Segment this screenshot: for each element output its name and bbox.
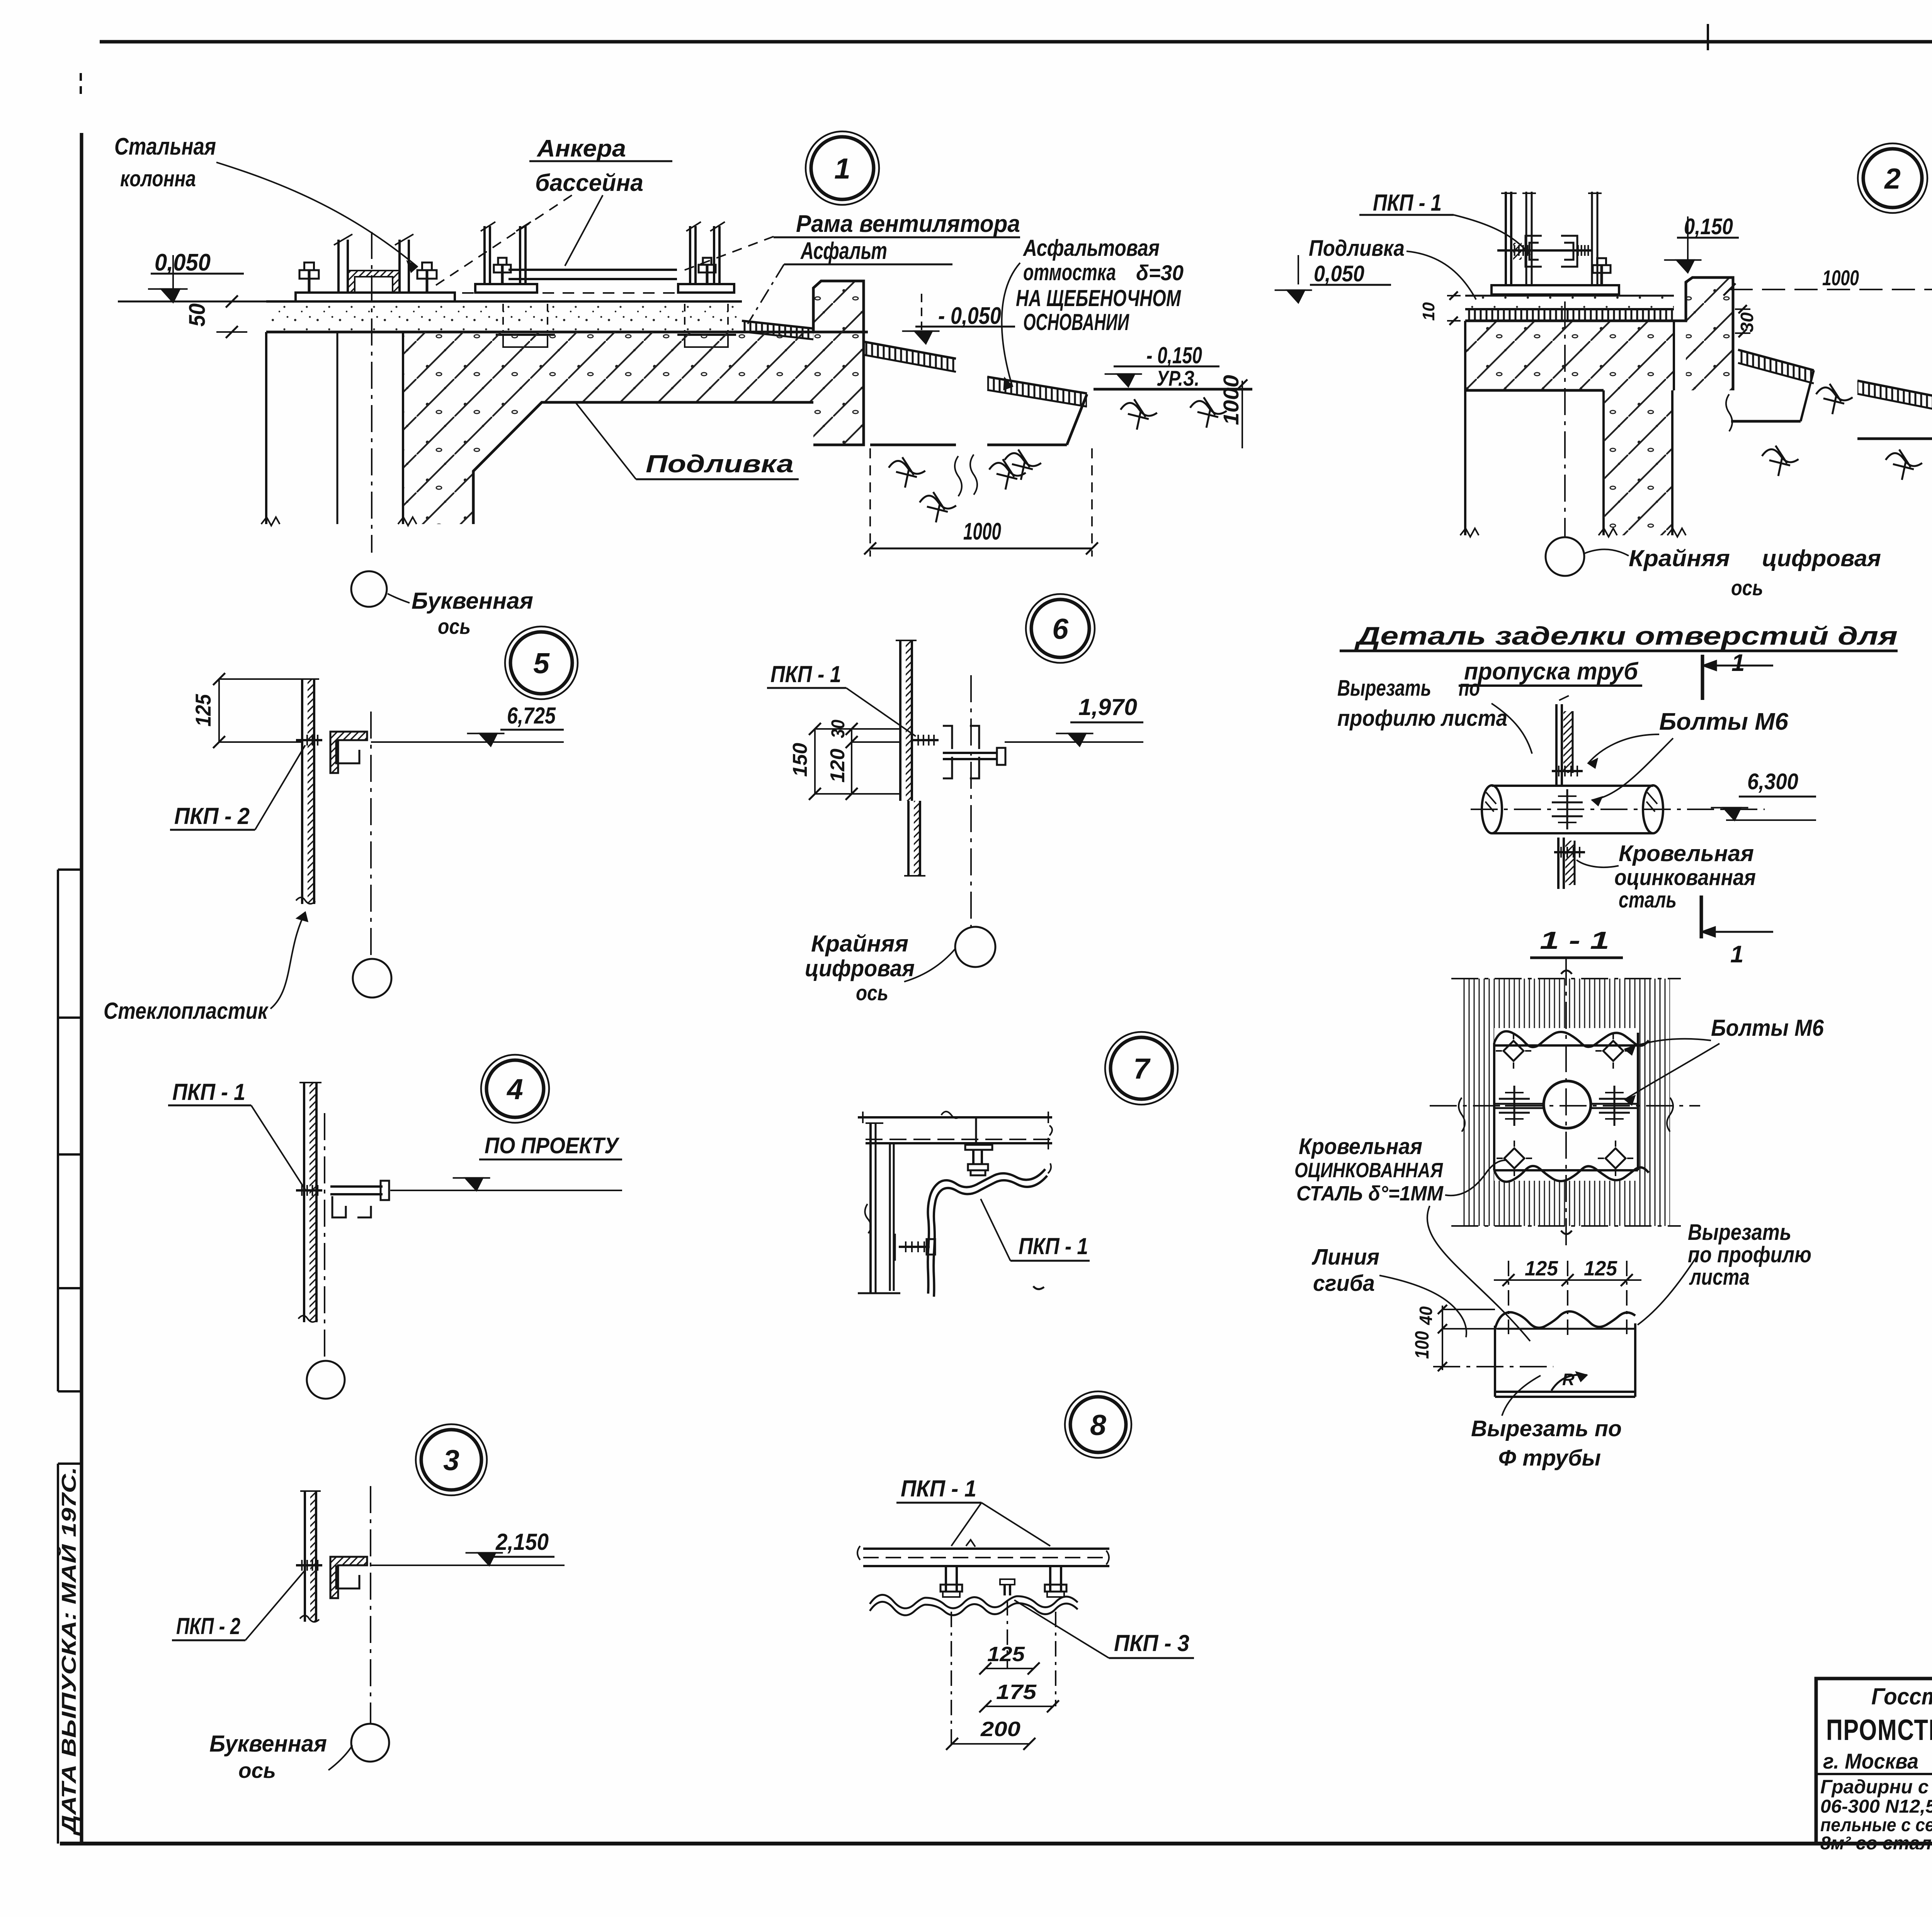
- svg-text:Кровельная: Кровельная: [1299, 1134, 1422, 1159]
- PKP-2 leader d3: [245, 1570, 305, 1640]
- svg-text:УР.З.: УР.З.: [1156, 366, 1199, 390]
- svg-text:оцинкованная: оцинкованная: [1614, 865, 1756, 890]
- ditch left slope teeth: [864, 342, 956, 372]
- section cut mark top: [1702, 650, 1773, 700]
- dim 50 ticks: [185, 295, 247, 338]
- dim 150/120/30 detail6: [789, 720, 900, 800]
- roofing steel leader: [1577, 860, 1619, 867]
- svg-text:бассейна: бассейна: [535, 170, 643, 196]
- svg-text:ПКП - 1: ПКП - 1: [1373, 190, 1442, 216]
- ditch right slope teeth: [987, 377, 1087, 407]
- heading underline 2: [1459, 684, 1642, 687]
- left margin ruling box: [58, 870, 82, 1391]
- dim 30 rotated d2: [1735, 305, 1757, 337]
- sheet detail 6 lower (lap): [904, 801, 925, 876]
- axis circle detail3: [351, 1724, 389, 1762]
- plan bottom dash-dot border: [1451, 1225, 1681, 1227]
- svg-text:40: 40: [1416, 1306, 1436, 1325]
- fold elevation plate: [1495, 1311, 1635, 1397]
- svg-text:ПКП - 1: ПКП - 1: [901, 1476, 976, 1502]
- clamp fitting on column d2: [1497, 236, 1591, 267]
- detail bubble 4: [481, 1055, 549, 1123]
- detail bubble 2: [1858, 143, 1927, 213]
- detail 7 top beam: [858, 1112, 1052, 1149]
- detail 1 axis leader: [388, 594, 410, 603]
- anchors leaders: [434, 195, 603, 287]
- leader cut-by-profile: [1492, 703, 1532, 754]
- roofing steel plan leader to elevation: [1427, 1206, 1530, 1341]
- bolts M6 leaders: [1588, 734, 1673, 805]
- lower sheet of pipe detail: [1558, 838, 1575, 889]
- steel column 2: [481, 222, 531, 284]
- asphalt teeth band on slab right: [742, 321, 813, 339]
- svg-text:125: 125: [1525, 1257, 1558, 1280]
- cover plate seam line: [1494, 1104, 1638, 1108]
- svg-text:ПКП - 1: ПКП - 1: [770, 661, 841, 687]
- svg-text:Буквенная: Буквенная: [209, 1731, 327, 1757]
- po proektu underline and level: [390, 1159, 622, 1190]
- level mark -0.150: [1105, 342, 1219, 386]
- slab top heavy line: [266, 331, 868, 334]
- base plate 2: [475, 284, 537, 293]
- letter axis bottom leader: [328, 1745, 352, 1770]
- svg-text:Крайняя: Крайняя: [811, 931, 908, 957]
- svg-text:ПКП - 1: ПКП - 1: [172, 1079, 245, 1105]
- svg-text:6,725: 6,725: [507, 703, 556, 729]
- plan bolts corner: [1496, 1033, 1633, 1176]
- svg-text:Болты М6: Болты М6: [1659, 708, 1789, 735]
- bolts M6 plan leaders: [1625, 1039, 1719, 1105]
- ground scribbles d2: [1762, 384, 1932, 480]
- left approach line y780: [118, 301, 266, 303]
- ditch teeth d2 left: [1738, 350, 1814, 383]
- axis circle detail5: [353, 959, 391, 998]
- svg-text:по профилю: по профилю: [1688, 1242, 1811, 1267]
- dims 40 and 100 fold: [1411, 1305, 1497, 1371]
- column 1 axis dash-dot: [371, 232, 372, 553]
- svg-text:0,150: 0,150: [1684, 214, 1733, 239]
- axis line detail5: [370, 712, 372, 959]
- base plate 1: [296, 293, 455, 301]
- embedded plate below column 3: [677, 304, 736, 349]
- lower wall detail 2: [1460, 390, 1686, 537]
- plan vertical centreline: [1565, 958, 1567, 1248]
- svg-text:Подливка: Подливка: [646, 450, 794, 478]
- svg-text:ПО ПРОЕКТУ: ПО ПРОЕКТУ: [485, 1133, 619, 1158]
- fold elevation R arc: [1551, 1370, 1587, 1391]
- ventilator frame leader: [678, 237, 774, 272]
- axis circle detail6: [955, 927, 995, 967]
- detail bubble 3: [416, 1424, 487, 1495]
- detail 7 left post: [858, 1123, 900, 1293]
- svg-text:50: 50: [185, 303, 210, 327]
- svg-text:150: 150: [789, 743, 811, 777]
- level 6.725 detail 5: [371, 703, 564, 746]
- svg-text:Градирни с вентиляторами: Градирни с вентиляторами: [1820, 1776, 1932, 1798]
- roofing steel plan leader to bolt: [1445, 1160, 1507, 1195]
- ditch right floor: [987, 444, 1067, 446]
- detail 8 dims: [946, 1600, 1059, 1750]
- svg-text:1: 1: [1730, 941, 1743, 968]
- ditch left floor: [870, 444, 956, 446]
- PKP-1 leader d6: [846, 688, 916, 736]
- grout stipple band d2: [1465, 296, 1674, 309]
- svg-text:Деталь заделки отверсти: Деталь заделки отверстий для: [1354, 621, 1898, 650]
- detail bubble 7: [1105, 1032, 1178, 1105]
- svg-text:125: 125: [191, 694, 215, 727]
- fold line leader: [1379, 1275, 1466, 1337]
- sheet detail 5 (fiberglass): [296, 679, 319, 904]
- upper sheet of pipe detail: [1556, 696, 1573, 785]
- svg-text:0,050: 0,050: [1314, 261, 1364, 286]
- svg-text:Подливка: Подливка: [1309, 236, 1405, 261]
- svg-text:3: 3: [443, 1444, 459, 1476]
- grout leader: [576, 403, 636, 479]
- svg-text:Анкера: Анкера: [536, 135, 626, 162]
- plan horizontal centreline: [1430, 1105, 1700, 1107]
- svg-text:ОСНОВАНИИ: ОСНОВАНИИ: [1023, 309, 1129, 335]
- svg-text:ось: ось: [856, 981, 888, 1005]
- bottom border line: [60, 1842, 1932, 1845]
- anchor bolt 1a: [308, 270, 311, 293]
- PKP-1 underline: [1359, 214, 1454, 216]
- ditch right slope edge: [1067, 394, 1087, 445]
- svg-text:Линия: Линия: [1311, 1245, 1379, 1270]
- svg-text:Рама вентилятора: Рама вентилятора: [796, 211, 1020, 237]
- ground scribbles below kerb: [889, 457, 1026, 523]
- svg-text:Асфальтовая: Асфальтовая: [1022, 235, 1160, 261]
- asphalt leader: [748, 264, 784, 324]
- column assembly detail 2: [1501, 192, 1602, 286]
- svg-text:4: 4: [506, 1073, 523, 1105]
- svg-text:6,300: 6,300: [1747, 769, 1798, 794]
- pipe axis dash-dot: [1471, 809, 1765, 810]
- axis circle detail 2: [1546, 537, 1584, 576]
- dim 125 detail 5: [191, 673, 302, 748]
- svg-text:30: 30: [828, 720, 849, 738]
- axis leader d6: [904, 949, 955, 982]
- bolt pair upper sheet: [1552, 770, 1583, 772]
- small dash above left border: [80, 73, 82, 94]
- svg-text:листа: листа: [1689, 1265, 1750, 1290]
- ditch teeth d2 right: [1857, 381, 1932, 411]
- detail 8 middle bolt PKP-3: [1000, 1579, 1015, 1595]
- level 6.300: [1711, 769, 1816, 820]
- plan bolts middle (tie): [1499, 1086, 1630, 1126]
- svg-text:Φ трубы: Φ трубы: [1498, 1445, 1601, 1471]
- svg-text:1000: 1000: [963, 518, 1001, 545]
- ground scribbles right ditch: [1005, 397, 1227, 480]
- svg-text:отмостка: отмостка: [1023, 259, 1116, 285]
- detail 8 beam: [857, 1540, 1109, 1566]
- top border line: [100, 40, 1932, 44]
- svg-text:125: 125: [1584, 1257, 1617, 1280]
- bolt on column2 plate: [501, 265, 504, 284]
- heading underline 1: [1340, 650, 1898, 652]
- concrete footing mass (hatched): [403, 332, 813, 524]
- fiberglass leader: [270, 912, 305, 1009]
- svg-text:цифровая: цифровая: [1762, 545, 1881, 571]
- svg-text:1 - 1: 1 - 1: [1540, 926, 1609, 954]
- cover plate centre hole: [1544, 1081, 1591, 1128]
- detail 8 corrugated sheet: [870, 1595, 1078, 1615]
- svg-text:Стеклопластик: Стеклопластик: [104, 998, 269, 1024]
- plan top dash-dot border: [1451, 978, 1681, 979]
- detail 8 post right: [1045, 1566, 1066, 1597]
- svg-text:ПРОМСТРОЙПРОЕКТ: ПРОМСТРОЙПРОЕКТ: [1826, 1713, 1932, 1747]
- svg-text:сталь: сталь: [1619, 887, 1677, 913]
- svg-text:10: 10: [1419, 302, 1438, 321]
- section cut mark bottom: [1701, 896, 1773, 968]
- PKP-1 underline d4: [168, 1105, 251, 1107]
- PKP-1 leader d4: [251, 1105, 305, 1190]
- dim 1000 under ditch: [864, 448, 1098, 557]
- svg-text:7: 7: [1133, 1052, 1151, 1085]
- fold line dash-dot inside plate: [1433, 1366, 1553, 1367]
- level mark 0.050 left: [148, 249, 244, 302]
- svg-text:5: 5: [533, 647, 550, 679]
- svg-text:2,150: 2,150: [495, 1529, 549, 1555]
- steel column 1 (channel webs): [334, 234, 413, 293]
- svg-text:ось: ось: [438, 614, 471, 638]
- ground level line right of ditch: [1094, 388, 1252, 391]
- level 0.150 detail2: [1664, 214, 1739, 272]
- asphalt underline: [784, 264, 952, 266]
- dim 10 rotated: [1419, 291, 1461, 325]
- sheet detail 6 upper: [896, 640, 917, 801]
- grout level 0.050: [1275, 255, 1391, 303]
- PKP-1 leader d7: [981, 1199, 1010, 1261]
- svg-text:- 0,150: - 0,150: [1146, 342, 1202, 368]
- PKP-2 underline d5: [170, 829, 255, 831]
- svg-text:175: 175: [996, 1680, 1037, 1704]
- detail bubble 6: [1026, 594, 1095, 663]
- axis line detail6: [970, 675, 972, 926]
- base plate 3: [678, 284, 734, 293]
- top border centre tick: [1707, 24, 1709, 50]
- clamp pair detail 6: [912, 726, 1005, 778]
- svg-text:цифровая: цифровая: [805, 955, 915, 981]
- PKP-1 underline d8: [896, 1502, 981, 1504]
- anchors underline: [529, 160, 672, 162]
- dim 1000 top right d2: [1723, 266, 1932, 301]
- asphalt teeth band d2: [1465, 309, 1674, 321]
- svg-text:1: 1: [834, 152, 850, 185]
- detail 7 beam stiffener: [975, 1117, 977, 1143]
- svg-text:1: 1: [1731, 650, 1745, 676]
- svg-text:100: 100: [1411, 1331, 1433, 1359]
- PKP-3 underline d8: [1109, 1657, 1194, 1659]
- detail bubble 5: [505, 627, 578, 699]
- PKP-1 leaders d8: [951, 1503, 1050, 1546]
- column 1 inner bent channel (hatched): [348, 271, 400, 293]
- PKP-1 underline d6: [767, 687, 846, 689]
- clamp PKP-2 detail 5: [296, 732, 367, 773]
- svg-text:δ=30: δ=30: [1136, 260, 1184, 285]
- axis line detail4: [324, 1113, 325, 1361]
- svg-text:ДАТА ВЫПУСКА: МАЙ 197С.: ДАТА ВЫПУСКА: МАЙ 197С.: [57, 1467, 80, 1836]
- svg-text:1000: 1000: [1822, 266, 1859, 290]
- svg-text:Вырезать: Вырезать: [1337, 676, 1431, 701]
- PKP-3 leader d8: [1014, 1600, 1109, 1658]
- svg-text:Кровельная: Кровельная: [1619, 841, 1754, 866]
- svg-text:Вырезать по: Вырезать по: [1471, 1416, 1622, 1441]
- svg-text:Буквенная: Буквенная: [412, 588, 533, 614]
- anchor bolt 1b: [426, 270, 429, 293]
- svg-text:Крайняя: Крайняя: [1629, 545, 1730, 571]
- svg-text:1000: 1000: [1219, 375, 1243, 425]
- clamp PKP-1 detail 4 (bolt+rod+channel): [296, 1181, 389, 1217]
- svg-text:по: по: [1459, 676, 1480, 701]
- svg-text:Госстрой, СССР: Госстрой, СССР: [1871, 1684, 1932, 1709]
- concrete block detail 2 (hatched): [1465, 321, 1674, 535]
- corrugated sheet plan (striped field): [1462, 979, 1670, 1226]
- svg-text:пропуска труб: пропуска труб: [1464, 658, 1639, 685]
- svg-text:колонна: колонна: [120, 166, 196, 191]
- PKP-1 underline d7: [1010, 1260, 1090, 1262]
- svg-text:2: 2: [1884, 162, 1901, 195]
- cut-by-pipe leader: [1502, 1376, 1541, 1416]
- cut-by-profile leader (to fold elevation): [1638, 1254, 1698, 1325]
- leader steel column: [216, 162, 417, 267]
- left border line: [80, 133, 83, 1844]
- svg-text:ПКП - 3: ПКП - 3: [1114, 1630, 1189, 1656]
- steel column 3: [686, 222, 725, 284]
- PKP-2 underline d3: [172, 1639, 245, 1641]
- sheet detail 3: [300, 1491, 321, 1622]
- svg-text:8м² со стальным каркасом: 8м² со стальным каркасом: [1820, 1833, 1932, 1854]
- svg-text:Вырезать: Вырезать: [1688, 1220, 1791, 1245]
- svg-text:сгиба: сгиба: [1313, 1271, 1375, 1296]
- ventilator frame underline: [774, 237, 1020, 238]
- 1-1 underline: [1530, 957, 1623, 959]
- svg-text:ось: ось: [1731, 575, 1763, 600]
- bolt pair crossing pipe: [1566, 789, 1568, 829]
- svg-text:Болты М6: Болты М6: [1711, 1015, 1824, 1041]
- ventilator frame dashed tie line: [402, 292, 738, 294]
- bolt pair lower sheet: [1554, 851, 1585, 853]
- axis line detail3: [370, 1486, 371, 1724]
- cover plate with corrugated ends: [1494, 1031, 1649, 1182]
- dim 1000c rotated right: [1219, 375, 1247, 448]
- svg-text:200: 200: [980, 1718, 1020, 1741]
- level mark -0.050: [902, 294, 1015, 344]
- svg-text:06-300 N12,5 пленочные и ка-: 06-300 N12,5 пленочные и ка-: [1820, 1796, 1932, 1817]
- kerb block (hatched): [813, 281, 864, 445]
- ditch d2 right slope and ground: [1857, 388, 1932, 439]
- svg-text:ПКП - 2: ПКП - 2: [174, 803, 250, 829]
- svg-text:г. Москва: г. Москва: [1823, 1749, 1918, 1773]
- support wall below slab: [261, 332, 417, 526]
- svg-text:НА ЩЕБЕНОЧНОМ: НА ЩЕБЕНОЧНОМ: [1016, 285, 1182, 311]
- grout underline: [636, 478, 799, 480]
- detail bubble 8: [1065, 1391, 1131, 1458]
- sheet detail 4: [298, 1083, 321, 1322]
- label cut by profile (plan right): [1688, 1220, 1811, 1290]
- svg-text:Асфальт: Асфальт: [800, 238, 887, 264]
- svg-text:ОЦИНКОВАННАЯ: ОЦИНКОВАННАЯ: [1294, 1159, 1443, 1182]
- detail 7 corrugated sheet (bends around corner): [928, 1163, 1051, 1297]
- PKP-2 leader d5: [255, 745, 305, 830]
- asphalt apron leader: [1002, 263, 1020, 386]
- level 2.150 detail3: [371, 1529, 565, 1565]
- kerb block detail 2: [1674, 278, 1733, 390]
- svg-text:- 0,050: - 0,050: [938, 303, 1001, 329]
- svg-text:125: 125: [987, 1643, 1025, 1666]
- svg-text:ПКП - 2: ПКП - 2: [176, 1613, 240, 1639]
- detail bubble 1: [806, 131, 879, 205]
- ventilator frame beam: [509, 270, 677, 279]
- plan side breaks: [1459, 970, 1673, 1234]
- clamp PKP-2 detail 3: [296, 1557, 367, 1598]
- dim 125 125 fold: [1494, 1257, 1641, 1336]
- svg-text:120: 120: [827, 749, 849, 783]
- svg-text:0,050: 0,050: [155, 249, 211, 276]
- pipe body: [1482, 785, 1663, 833]
- svg-text:профилю листа: профилю листа: [1337, 706, 1507, 731]
- svg-text:ПКП - 1: ПКП - 1: [1019, 1233, 1088, 1259]
- svg-text:R: R: [1562, 1370, 1575, 1389]
- base plate detail 2: [1492, 285, 1619, 295]
- detail 7 side bolt through post: [895, 1234, 935, 1261]
- ditch left break squiggle: [955, 455, 977, 496]
- svg-text:1,970: 1,970: [1078, 694, 1137, 720]
- PKP-1 leader to column: [1454, 215, 1530, 255]
- bolt on column3 plate: [706, 265, 709, 284]
- svg-text:пельные с секциями площадью: пельные с секциями площадью: [1820, 1815, 1932, 1835]
- embedded plate below column 2: [496, 304, 555, 349]
- axis circle detail4: [307, 1361, 345, 1399]
- detail 1 axis circle (letter axis): [351, 571, 387, 607]
- axis dash-dot detail2: [1564, 301, 1566, 536]
- detail 7 hanger bolt under beam: [965, 1145, 992, 1175]
- label extreme numeric axis d2: [1584, 545, 1881, 600]
- svg-text:ось: ось: [238, 1758, 276, 1783]
- detail 8 post left: [940, 1566, 962, 1597]
- title block frame: [1816, 1679, 1932, 1844]
- left margin date box: [58, 1464, 82, 1844]
- grout leader detail2: [1406, 251, 1476, 300]
- svg-text:6: 6: [1052, 613, 1069, 645]
- svg-text:8: 8: [1090, 1409, 1106, 1441]
- grout layer under plates (stipple band): [266, 301, 742, 332]
- svg-text:Стальная: Стальная: [114, 133, 216, 160]
- bolt right of column d2: [1600, 265, 1603, 285]
- svg-text:СТАЛЬ δ°=1ММ: СТАЛЬ δ°=1ММ: [1296, 1182, 1444, 1205]
- level 1.970 detail6: [1005, 694, 1143, 746]
- ditch d2 left floor: [1726, 370, 1814, 431]
